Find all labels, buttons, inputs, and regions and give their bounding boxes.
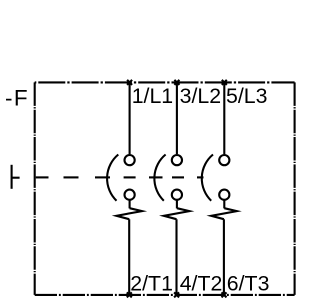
- pole 3 breaker arc: [202, 155, 213, 201]
- svg-text:-: -: [5, 86, 13, 111]
- terminal 2/T1 X marker: [127, 292, 132, 297]
- pole 3 thermal overload element (zigzag): [211, 208, 237, 219]
- mechanical linkage (dashed) segment 5 crossing pole 2 arc: [149, 176, 163, 178]
- pole 2 moving contact circle (bottom): [172, 190, 182, 200]
- wire: pole 3 bottom lead: [223, 219, 225, 295]
- svg-text:F: F: [14, 86, 28, 111]
- wire: pole 2 top lead: [176, 82, 178, 154]
- breaker -F enclosure border bottom (dash-dot): [35, 294, 295, 296]
- wire: pole 3 top lead: [223, 82, 225, 154]
- mechanical linkage (dashed) segment 2: [64, 176, 79, 178]
- pole 2 fixed contact circle (top): [172, 155, 182, 165]
- pole 1 moving contact circle (bottom): [125, 190, 135, 200]
- mechanical linkage (dashed) segment 6 between pole 2 contacts: [172, 176, 184, 178]
- pole 1 fixed contact circle (top): [125, 155, 135, 165]
- terminal 3/L2 X marker: [174, 80, 179, 85]
- mechanical linkage (dashed) segment 7 at pole 3 arc: [197, 176, 204, 178]
- wire: pole 2 bottom lead: [175, 219, 177, 295]
- svg-text:1/L1: 1/L1: [132, 84, 173, 108]
- wire: pole 3 mid lead: [223, 200, 225, 209]
- pole 1 thermal overload element (zigzag): [117, 208, 143, 219]
- terminal 5/L3 X marker: [222, 80, 227, 85]
- wire: pole 1 mid lead: [129, 200, 131, 209]
- manual actuator symbol (left): [12, 165, 20, 189]
- mechanical linkage (dashed) segment 1: [36, 176, 49, 178]
- breaker -F enclosure border left (dash-dot): [34, 82, 36, 295]
- mechanical linkage (dashed) segment 4 between pole 1 contacts: [124, 176, 136, 178]
- breaker -F enclosure border top (dash-dot): [35, 81, 295, 83]
- terminal 1/L1 X marker: [127, 80, 132, 85]
- terminal 4/T2 X marker: [174, 292, 179, 297]
- wire: pole 1 top lead: [129, 82, 131, 154]
- svg-text:6/T3: 6/T3: [227, 271, 270, 295]
- pole 2 thermal overload element (zigzag): [164, 208, 190, 219]
- wire: pole 1 bottom lead: [128, 219, 130, 295]
- wire: pole 2 mid lead: [176, 200, 178, 209]
- svg-text:3/L2: 3/L2: [180, 84, 221, 108]
- pole 2 breaker arc: [154, 155, 165, 201]
- mechanical linkage (dashed) segment 3 crossing pole 1 arc: [95, 176, 110, 178]
- pole 3 fixed contact circle (top): [219, 155, 229, 165]
- svg-text:4/T2: 4/T2: [180, 271, 223, 295]
- pole 1 breaker arc: [107, 155, 118, 201]
- svg-text:2/T1: 2/T1: [130, 271, 173, 295]
- pole 3 moving contact circle (bottom): [219, 190, 229, 200]
- terminal 6/T3 X marker: [222, 292, 227, 297]
- breaker -F enclosure border right (dash-dot): [294, 82, 296, 295]
- svg-text:5/L3: 5/L3: [226, 84, 267, 108]
